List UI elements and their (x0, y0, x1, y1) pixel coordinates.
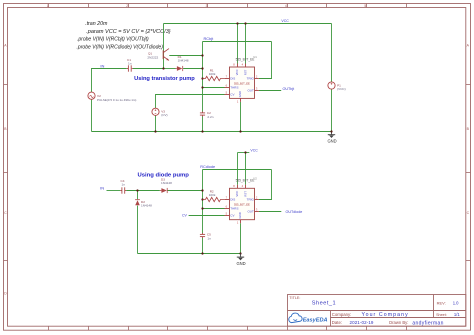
wire RCdiode vertical (202, 170, 204, 234)
svg-text:REV:: REV: (437, 300, 446, 305)
frame row ticks left and right (4, 85, 471, 261)
wire OUT (259, 90, 281, 92)
ground (bottom circuit) (236, 254, 245, 266)
svg-text:Company:: Company: (332, 312, 352, 317)
capacitor C4 (120, 179, 126, 194)
svg-text:1n: 1n (122, 183, 126, 187)
svg-text:1.0: 1.0 (453, 300, 459, 305)
voltage source V2 (88, 92, 136, 102)
svg-text:1N4148: 1N4148 (178, 59, 189, 63)
wire 555 gnd pin (240, 102, 242, 132)
svg-text:100k: 100k (209, 193, 216, 197)
svg-text:Drawn By:: Drawn By: (389, 320, 408, 325)
wire RCbjt horizontal (203, 41, 272, 43)
wire P1 top (331, 24, 333, 82)
wire ground rail (92, 131, 332, 133)
wire Q1 base to RC vertical (169, 55, 202, 57)
wire V2 loop left vertical (91, 99, 93, 131)
svg-text:IN: IN (100, 63, 104, 68)
svg-text:TRIG: TRIG (247, 198, 255, 202)
svg-text:.probe V(IN) V(RCbjt) V(OUTbjt: .probe V(IN) V(RCbjt) V(OUTbjt) (77, 37, 149, 43)
svg-text:THRS: THRS (230, 207, 238, 211)
svg-text:IN: IN (100, 185, 104, 190)
svg-text:OUT: OUT (247, 89, 254, 93)
svg-text:TRIG: TRIG (247, 77, 255, 81)
svg-text:555_BJT_EE: 555_BJT_EE (234, 203, 250, 207)
wire TRIG drop (bottom) (259, 170, 272, 200)
svg-text:100k: 100k (209, 72, 216, 76)
svg-text:5: 5 (364, 4, 366, 8)
wire D3 to RC node (167, 190, 202, 192)
EasyEDA logo (289, 313, 328, 323)
wire THRS (203, 87, 225, 89)
junction dots top circuit (154, 22, 246, 132)
svg-text:.tran 20m: .tran 20m (85, 21, 108, 27)
svg-text:TITLE:: TITLE: (289, 296, 300, 300)
wire 555 rst pin4 (bottom) (245, 153, 247, 185)
svg-text:3: 3 (206, 4, 208, 8)
svg-text:.probe V(IN) V(RCdiode) V(OUTd: .probe V(IN) V(RCdiode) V(OUTdiode) (77, 44, 164, 50)
svg-text:Using transistor pump: Using transistor pump (134, 76, 195, 82)
wire TRIG drop (259, 42, 272, 79)
svg-text:VCC: VCC (281, 19, 289, 23)
diode D2 (135, 200, 152, 208)
resistor R1 (203, 68, 225, 80)
svg-text:CV: CV (182, 213, 188, 217)
svg-text:CV: CV (230, 214, 234, 218)
svg-text:OUTbjt: OUTbjt (283, 87, 295, 91)
svg-text:EasyEDA: EasyEDA (303, 317, 328, 323)
wire P1 bottom (331, 89, 333, 131)
wire THRS (bottom) (203, 208, 225, 210)
svg-text:1n: 1n (128, 62, 132, 66)
svg-text:1N4148: 1N4148 (141, 203, 152, 207)
wire 555 vcc pin8 (bottom) (237, 153, 239, 185)
transistor Q1 (147, 49, 169, 61)
svg-text:GND: GND (327, 138, 336, 143)
svg-text:1N4148: 1N4148 (161, 181, 172, 185)
svg-text:555_BJT_EE: 555_BJT_EE (234, 81, 250, 85)
svg-text:DIS: DIS (230, 198, 235, 202)
capacitor C5 (200, 233, 211, 241)
wire C5 bottom (202, 238, 204, 254)
wire C2 bottom (202, 117, 204, 132)
junction dots bottom circuit (136, 151, 246, 254)
svg-text:555_BJT_EE: 555_BJT_EE (236, 57, 255, 61)
svg-text:Sheet:: Sheet: (436, 313, 447, 317)
svg-text:VCC: VCC (235, 191, 239, 197)
wire 555 gnd pin (bottom) (240, 223, 242, 253)
capacitor C2 (200, 111, 214, 119)
svg-text:OUT: OUT (247, 210, 254, 214)
svg-text:VCC: VCC (250, 148, 258, 152)
wire C4 to D2 node (126, 190, 160, 192)
wire D1 to RC node (183, 68, 202, 70)
svg-text:OUTdiode: OUTdiode (286, 210, 303, 214)
svg-text:GND: GND (238, 212, 242, 218)
svg-text:VCC: VCC (235, 69, 239, 75)
svg-text:555_BJT_EE: 555_BJT_EE (236, 179, 255, 183)
capacitor C1 (127, 58, 133, 72)
svg-text:DIS: DIS (230, 77, 235, 81)
wire IN horizontal (bottom) (107, 190, 121, 192)
wire 555 rst pin4 (245, 24, 247, 64)
svg-text:andyfierman: andyfierman (412, 320, 443, 326)
resistor R2 (203, 190, 225, 202)
svg-text:U1: U1 (253, 55, 257, 59)
svg-text:1: 1 (47, 4, 49, 8)
wire CV (bottom) (189, 215, 225, 217)
wire VCC rail top (164, 23, 332, 25)
diode D3 (160, 177, 172, 193)
wire RC vertical (202, 42, 204, 112)
wire VCC rail (bottom) (238, 152, 250, 154)
svg-text:RCdiode: RCdiode (200, 165, 215, 169)
svg-text:Your Company: Your Company (362, 312, 409, 318)
wire D2 branch down (137, 191, 139, 200)
wire OUT (bottom) (259, 211, 281, 213)
svg-text:2N2222: 2N2222 (147, 56, 158, 60)
svg-text:2: 2 (126, 4, 128, 8)
svg-text:Date:: Date: (332, 320, 342, 325)
svg-text:RCbjt: RCbjt (204, 36, 215, 41)
diode D1 (176, 55, 189, 71)
ground (top circuit) (327, 130, 336, 143)
wire V3 bottom (155, 115, 157, 131)
svg-text:RST: RST (243, 191, 247, 197)
svg-text:THRS: THRS (230, 86, 238, 90)
wire RCdiode horizontal (203, 169, 272, 171)
wire C1 to Q1 emitter node (133, 68, 164, 70)
svg-text:GND: GND (236, 261, 245, 266)
svg-text:GND: GND (238, 91, 242, 97)
op 555 U2 (225, 177, 259, 225)
wire Q1 node to D1 (164, 68, 176, 70)
svg-text:(CV): (CV) (161, 113, 167, 117)
wire ground rail (bottom) (138, 253, 241, 255)
op 555 U1 (225, 55, 259, 103)
svg-text:4: 4 (285, 4, 287, 8)
svg-text:2.2n: 2.2n (207, 115, 213, 119)
spice directive .tran (77, 21, 171, 50)
wire CV from V3 (156, 95, 225, 109)
wire VCC drop through Q1 (163, 24, 165, 69)
wire 555 vcc pin8 (237, 24, 239, 64)
frame column ticks bottom (49, 326, 407, 330)
frame column ticks top (49, 4, 407, 8)
svg-text:Sheet_1: Sheet_1 (312, 300, 336, 306)
svg-text:2021-02-19: 2021-02-19 (350, 320, 374, 325)
voltage source V3 (152, 108, 168, 117)
power source P1 (328, 82, 346, 91)
svg-text:CV: CV (230, 93, 234, 97)
svg-text:1n: 1n (207, 236, 211, 240)
svg-text:RST: RST (243, 69, 247, 75)
wire IN horizontal (92, 69, 127, 93)
svg-text:PULSE(0 5 0 1u 1u 499u 1m): PULSE(0 5 0 1u 1u 499u 1m) (97, 98, 136, 102)
svg-text:.param VCC = 5V CV = {2*VCC/3}: .param VCC = 5V CV = {2*VCC/3} (86, 29, 171, 35)
svg-text:(VCC): (VCC) (337, 87, 346, 91)
svg-text:U2: U2 (253, 177, 257, 181)
svg-text:1/1: 1/1 (454, 312, 460, 317)
